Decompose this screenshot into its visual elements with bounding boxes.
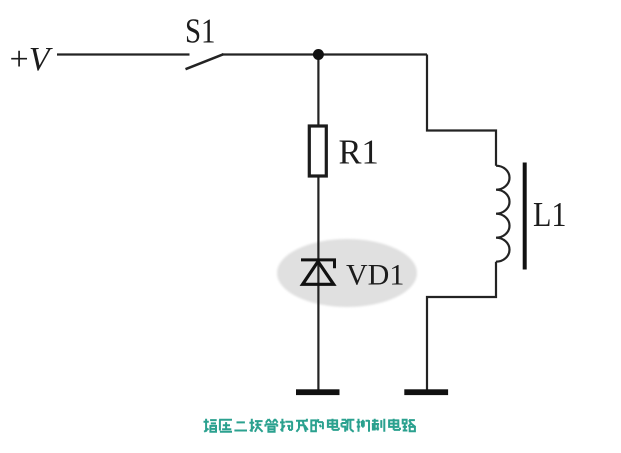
svg-text:VD1: VD1 <box>346 258 404 291</box>
svg-text:L1: L1 <box>533 196 567 234</box>
svg-text:R1: R1 <box>339 134 379 172</box>
svg-text:S1: S1 <box>185 13 216 51</box>
svg-text:+V: +V <box>10 41 54 78</box>
